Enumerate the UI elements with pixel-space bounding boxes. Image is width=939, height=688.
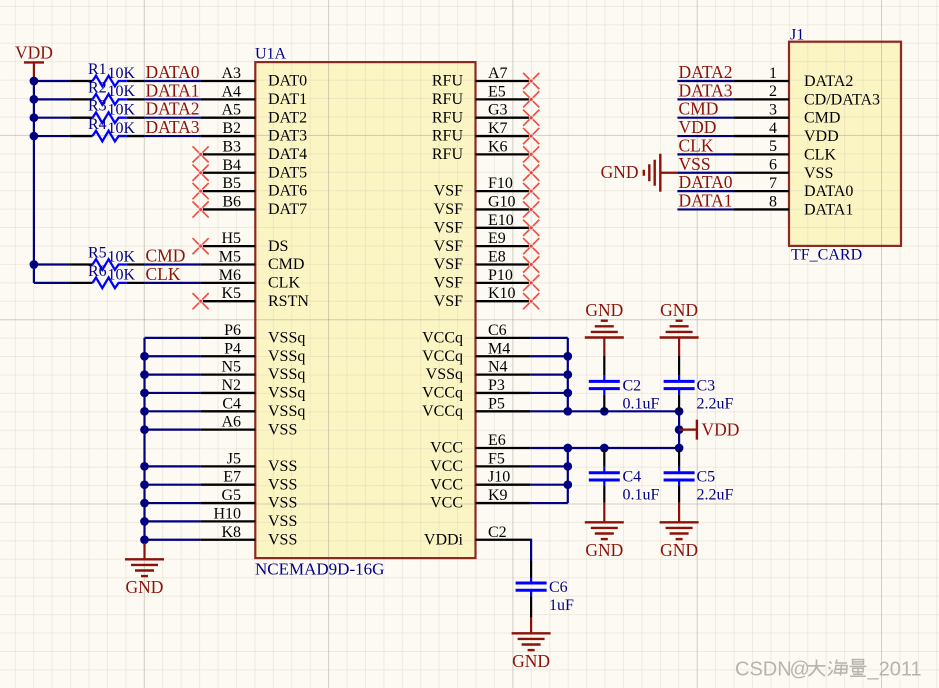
capacitor C5 2.2uF	[664, 449, 734, 504]
svg-text:A5: A5	[221, 102, 241, 119]
net label VSS J1	[679, 154, 711, 174]
svg-text:VDD: VDD	[702, 420, 740, 440]
svg-text:GND: GND	[660, 540, 698, 560]
svg-text:R3: R3	[88, 98, 107, 115]
resistor R2 10K	[70, 79, 144, 104]
svg-text:C5: C5	[697, 469, 716, 486]
svg-text:DAT5: DAT5	[268, 164, 307, 181]
svg-text:K5: K5	[221, 285, 241, 302]
svg-text:DATA3: DATA3	[679, 80, 733, 100]
svg-text:VSF: VSF	[434, 238, 463, 255]
svg-text:C2: C2	[488, 524, 507, 541]
svg-text:DATA3: DATA3	[146, 117, 200, 137]
svg-text:4: 4	[769, 120, 777, 137]
svg-text:E10: E10	[488, 212, 514, 229]
svg-text:3: 3	[769, 102, 777, 119]
ground GND left	[125, 543, 164, 597]
net label CMD J1	[679, 99, 719, 119]
svg-text:VSF: VSF	[434, 219, 463, 236]
pin F10 (VSF) U1A right	[434, 175, 531, 200]
svg-text:DATA2: DATA2	[146, 99, 200, 119]
pin E8 (VSF) U1A right	[434, 249, 531, 274]
capacitor C6 1uF	[516, 561, 574, 618]
svg-text:E8: E8	[488, 249, 506, 266]
svg-text:VDD: VDD	[15, 42, 53, 62]
wire VCC bus right lower	[567, 448, 569, 503]
wire VDDi to C6	[529, 540, 532, 561]
wire C3 to C5 column	[678, 411, 680, 448]
wire net DATA2 J1	[677, 80, 734, 82]
pin 4 J1	[734, 120, 839, 145]
pin H5 (DS) U1A left	[201, 230, 289, 255]
net label CLK	[146, 264, 181, 284]
pin E7 (VSS) U1A left	[201, 469, 298, 494]
svg-text:VCC: VCC	[430, 458, 463, 475]
junction VDD bus	[30, 77, 39, 269]
pin J5 (VSS) U1A left	[201, 450, 298, 475]
pin 5 J1	[734, 138, 836, 163]
pin C2 (VDDi) U1A right	[424, 524, 531, 549]
net label DATA2	[146, 99, 200, 119]
svg-text:CMD: CMD	[804, 110, 840, 127]
svg-text:VSS: VSS	[268, 421, 297, 438]
svg-text:DATA0: DATA0	[804, 183, 853, 200]
svg-text:E6: E6	[488, 432, 506, 449]
op-amp U1A outline	[255, 46, 476, 579]
pin F5 (VCC) U1A right	[430, 450, 530, 475]
svg-text:CMD: CMD	[146, 246, 186, 266]
wire net VDD J1	[677, 135, 734, 137]
wire GND bus to pin row 22	[145, 484, 201, 486]
wire pin row 17 to bus	[530, 392, 567, 394]
power port VDD top-left	[15, 42, 53, 79]
svg-text:VSF: VSF	[434, 256, 463, 273]
svg-text:VSF: VSF	[434, 201, 463, 218]
pin B4 (DAT5) U1A left	[201, 157, 308, 182]
svg-text:C4: C4	[222, 395, 241, 412]
svg-text:C6: C6	[549, 579, 568, 596]
pin A4 (DAT1) U1A left	[201, 83, 308, 108]
svg-text:CD/DATA3: CD/DATA3	[804, 91, 880, 108]
net label DATA0 J1	[679, 172, 733, 192]
svg-text:CLK: CLK	[679, 135, 714, 155]
pin 8 J1	[734, 193, 853, 218]
svg-text:DAT3: DAT3	[268, 128, 307, 145]
svg-text:DATA1: DATA1	[146, 80, 200, 100]
svg-text:GND: GND	[585, 540, 623, 560]
svg-text:DAT4: DAT4	[268, 146, 307, 163]
ground GND below C6	[512, 618, 551, 671]
svg-text:DATA2: DATA2	[804, 73, 853, 90]
ground GND below C4	[585, 503, 624, 560]
svg-text:R5: R5	[88, 245, 107, 262]
svg-text:VSSq: VSSq	[268, 348, 305, 365]
pin 3 J1	[734, 102, 840, 127]
svg-text:J10: J10	[488, 469, 510, 486]
pin K10 (VSF) U1A right	[434, 285, 531, 310]
svg-text:VCC: VCC	[430, 476, 463, 493]
svg-text:DATA1: DATA1	[679, 190, 733, 210]
wire VDD bus to R3	[34, 117, 70, 119]
svg-text:H10: H10	[213, 505, 241, 522]
svg-text:GND: GND	[512, 651, 550, 671]
svg-text:F5: F5	[488, 450, 505, 467]
svg-text:K6: K6	[488, 138, 508, 155]
ground GND below C5	[660, 503, 699, 560]
resistor R5 10K	[70, 245, 144, 270]
svg-text:F10: F10	[488, 175, 513, 192]
svg-text:VCCq: VCCq	[422, 348, 463, 365]
pin N2 (VSSq) U1A left	[201, 377, 306, 402]
wire GND bus to pin row 17	[145, 392, 201, 394]
svg-text:VSF: VSF	[434, 274, 463, 291]
wire GND bus to pin row 19	[145, 429, 201, 431]
svg-text:2.2uF: 2.2uF	[697, 487, 734, 504]
junction upper bus	[563, 352, 683, 416]
svg-text:0.1uF: 0.1uF	[623, 395, 660, 412]
svg-text:RFU: RFU	[432, 91, 464, 108]
wire net DATA2	[144, 117, 200, 119]
svg-text:RFU: RFU	[432, 109, 464, 126]
net label DATA3	[146, 117, 200, 137]
svg-text:P3: P3	[488, 377, 505, 394]
pin H10 (VSS) U1A left	[201, 505, 298, 530]
svg-text:A3: A3	[221, 65, 241, 82]
wire net DATA3	[144, 135, 200, 137]
svg-text:N4: N4	[488, 359, 508, 376]
pin G10 (VSF) U1A right	[434, 193, 531, 218]
pin 6 J1	[734, 157, 833, 182]
net label DATA1 J1	[679, 190, 733, 210]
pin N4 (VSSq) U1A right	[426, 359, 531, 384]
svg-text:GND: GND	[601, 162, 639, 182]
wire pin row 15 to bus	[530, 355, 567, 357]
svg-text:G10: G10	[488, 193, 516, 210]
svg-text:VSS: VSS	[268, 458, 297, 475]
wire GND bus to pin row 23	[145, 502, 201, 504]
wire GND bus to pin row 18	[145, 410, 201, 412]
svg-text:VSSq: VSSq	[268, 403, 305, 420]
svg-text:VSS: VSS	[268, 495, 297, 512]
svg-text:C2: C2	[623, 377, 642, 394]
svg-text:K10: K10	[488, 285, 516, 302]
pin M6 (CLK) U1A left	[201, 267, 301, 292]
resistor R3 10K	[70, 98, 144, 123]
svg-text:A7: A7	[488, 65, 508, 82]
svg-text:10K: 10K	[108, 248, 136, 265]
svg-text:B6: B6	[222, 193, 241, 210]
svg-text:R4: R4	[88, 116, 107, 133]
svg-text:DATA1: DATA1	[804, 201, 853, 218]
capacitor C2 0.1uF	[589, 356, 660, 412]
svg-text:10K: 10K	[108, 83, 136, 100]
svg-text:@: @	[790, 659, 810, 681]
svg-text:M5: M5	[219, 249, 241, 266]
svg-text:B3: B3	[222, 138, 241, 155]
svg-text:VSF: VSF	[434, 183, 463, 200]
svg-text:N2: N2	[221, 377, 241, 394]
svg-text:VCC: VCC	[430, 495, 463, 512]
svg-text:DAT1: DAT1	[268, 91, 307, 108]
svg-text:10K: 10K	[108, 65, 136, 82]
svg-text:C4: C4	[623, 469, 642, 486]
wire VDD bus to R1	[34, 80, 70, 82]
svg-text:GND: GND	[660, 300, 698, 320]
svg-text:DAT7: DAT7	[268, 201, 307, 218]
junction GND bus left	[140, 352, 149, 544]
svg-text:B4: B4	[222, 157, 241, 174]
pin G5 (VSS) U1A left	[201, 487, 298, 512]
IC body U1A	[255, 62, 475, 558]
svg-text:P10: P10	[488, 267, 513, 284]
svg-text:P5: P5	[488, 395, 505, 412]
no-ERC marks U1A left pins	[193, 146, 209, 309]
pin P5 (VCCq) U1A right	[422, 395, 530, 420]
wire VDD bus to R6	[34, 282, 70, 284]
no-ERC marks U1A right pins	[523, 73, 539, 309]
resistor R1 10K	[70, 61, 144, 86]
pin K7 (RFU) U1A right	[432, 120, 531, 145]
svg-text:GND: GND	[126, 577, 164, 597]
svg-text:K9: K9	[488, 487, 508, 504]
svg-text:C6: C6	[488, 322, 507, 339]
pin M4 (VCCq) U1A right	[422, 340, 530, 365]
pin C6 (VCCq) U1A right	[422, 322, 530, 347]
svg-text:DATA0: DATA0	[679, 172, 733, 192]
svg-text:DS: DS	[268, 238, 288, 255]
connector body J1	[789, 42, 901, 246]
svg-text:CLK: CLK	[268, 274, 300, 291]
svg-text:VSF: VSF	[434, 293, 463, 310]
svg-text:VDDi: VDDi	[424, 531, 464, 548]
wire GND bus to pin row 21	[145, 465, 201, 467]
svg-text:R2: R2	[88, 79, 107, 96]
svg-text:P6: P6	[224, 322, 241, 339]
svg-text:0.1uF: 0.1uF	[623, 487, 660, 504]
wire VDD bus to R2	[34, 98, 70, 100]
pin P10 (VSF) U1A right	[434, 267, 531, 292]
svg-text:VCCq: VCCq	[422, 385, 463, 402]
wire net DATA1 J1	[677, 208, 734, 210]
svg-text:GND: GND	[585, 300, 623, 320]
pin B6 (DAT7) U1A left	[201, 193, 308, 218]
pin A3 (DAT0) U1A left	[201, 65, 308, 90]
svg-text:RSTN: RSTN	[268, 293, 309, 310]
wire GND bus to pin row 15	[145, 355, 201, 357]
wire VDD bus right upper	[567, 338, 569, 411]
svg-text:VSS: VSS	[268, 476, 297, 493]
net label DATA0	[146, 62, 200, 82]
svg-text:E9: E9	[488, 230, 506, 247]
watermark	[735, 659, 922, 681]
pin K8 (VSS) U1A left	[201, 524, 298, 549]
pin K6 (RFU) U1A right	[432, 138, 531, 163]
pin J10 (VCC) U1A right	[430, 469, 530, 494]
svg-text:CMD: CMD	[679, 99, 719, 119]
pin C4 (VSSq) U1A left	[201, 395, 306, 420]
svg-text:VSSq: VSSq	[426, 366, 463, 383]
ground GND at J1 VSS	[601, 154, 678, 192]
svg-text:H5: H5	[221, 230, 241, 247]
pin E5 (RFU) U1A right	[432, 83, 531, 108]
wire GND bus to pin row 24	[145, 520, 201, 522]
wire net DATA3 J1	[677, 98, 734, 100]
svg-text:DATA0: DATA0	[146, 62, 200, 82]
svg-text:TF_CARD: TF_CARD	[791, 247, 862, 264]
wire net CMD	[144, 263, 200, 265]
svg-text:2: 2	[769, 83, 777, 100]
svg-text:10K: 10K	[108, 102, 136, 119]
svg-text:U1A: U1A	[255, 46, 287, 63]
capacitor C4 0.1uF	[589, 449, 660, 504]
svg-text:CMD: CMD	[268, 256, 304, 273]
pin P6 (VSSq) U1A left	[201, 322, 306, 347]
svg-text:10K: 10K	[108, 267, 136, 284]
pin P4 (VSSq) U1A left	[201, 340, 306, 365]
wire bus to C5	[568, 447, 679, 449]
junction lower bus	[563, 425, 683, 489]
svg-text:DAT2: DAT2	[268, 109, 307, 126]
svg-text:A4: A4	[221, 83, 241, 100]
wire VDD bus to R5	[34, 263, 70, 265]
svg-text:VSS: VSS	[268, 531, 297, 548]
wire GND bus to pin row 16	[145, 374, 201, 376]
svg-text:R6: R6	[88, 263, 107, 280]
wire bus to C3	[568, 410, 679, 412]
pin E6 (VCC) U1A right	[430, 432, 530, 457]
svg-text:RFU: RFU	[432, 146, 464, 163]
wire net DATA0	[144, 80, 200, 82]
svg-text:CLK: CLK	[146, 264, 181, 284]
svg-text:P4: P4	[224, 340, 241, 357]
svg-text:_2011: _2011	[867, 659, 922, 681]
svg-text:E7: E7	[223, 469, 241, 486]
wire net DATA1	[144, 98, 200, 100]
svg-text:VDD: VDD	[804, 128, 839, 145]
svg-text:VCCq: VCCq	[422, 330, 463, 347]
pin A6 (VSS) U1A left	[201, 414, 298, 439]
svg-text:VSSq: VSSq	[268, 366, 305, 383]
resistor R6 10K	[70, 263, 144, 288]
svg-text:G5: G5	[221, 487, 241, 504]
svg-text:10K: 10K	[108, 120, 136, 137]
net label CMD	[146, 246, 186, 266]
resistor R4 10K	[70, 116, 144, 141]
wire pin row 16 to bus	[530, 374, 567, 376]
svg-text:1uF: 1uF	[549, 597, 574, 614]
pin G3 (RFU) U1A right	[432, 102, 531, 127]
pin B5 (DAT6) U1A left	[201, 175, 308, 200]
wire pin row 22 to bus	[530, 484, 567, 486]
pin 7 J1	[734, 175, 853, 200]
svg-text:K8: K8	[221, 524, 241, 541]
svg-text:8: 8	[769, 193, 777, 210]
svg-text:VSSq: VSSq	[268, 385, 305, 402]
pin 2 J1	[734, 83, 880, 108]
wire net CLK	[144, 282, 200, 284]
svg-text:B2: B2	[222, 120, 241, 137]
wire pin row 21 to bus	[530, 465, 567, 467]
net label CLK J1	[679, 135, 714, 155]
capacitor C3 2.2uF	[664, 356, 734, 412]
pin A7 (RFU) U1A right	[432, 65, 531, 90]
svg-text:VSS: VSS	[804, 165, 833, 182]
svg-text:J1: J1	[790, 27, 804, 44]
svg-text:1: 1	[769, 65, 777, 82]
wire pin row 14 to bus	[530, 337, 567, 339]
pin N5 (VSSq) U1A left	[201, 359, 306, 384]
wire net CLK J1	[677, 153, 734, 155]
svg-text:RFU: RFU	[432, 128, 464, 145]
connector J1 outline	[789, 27, 901, 264]
wire GND bus left	[143, 338, 145, 545]
wire net CMD J1	[677, 117, 734, 119]
svg-text:C3: C3	[697, 377, 716, 394]
wire VDD vertical bus	[33, 79, 35, 283]
pin B3 (DAT4) U1A left	[201, 138, 308, 163]
wire GND bus to pin row 25	[145, 539, 201, 541]
wire pin row 18 to bus	[530, 410, 567, 412]
pin M5 (CMD) U1A left	[201, 249, 305, 274]
svg-text:J5: J5	[227, 450, 241, 467]
ground GND above C3	[660, 300, 699, 356]
net label DATA1	[146, 80, 200, 100]
svg-text:VCC: VCC	[430, 440, 463, 457]
pin A5 (DAT2) U1A left	[201, 102, 308, 127]
wire GND bus to pin row 14	[145, 337, 201, 339]
svg-text:M6: M6	[219, 267, 241, 284]
svg-text:N5: N5	[221, 359, 241, 376]
svg-text:VDD: VDD	[679, 117, 717, 137]
pin E10 (VSF) U1A right	[434, 212, 531, 237]
svg-text:VSS: VSS	[268, 513, 297, 530]
svg-text:G3: G3	[488, 102, 508, 119]
svg-text:NCEMAD9D-16G: NCEMAD9D-16G	[255, 560, 384, 579]
pin E9 (VSF) U1A right	[434, 230, 531, 255]
pin B2 (DAT3) U1A left	[201, 120, 308, 145]
svg-text:R1: R1	[88, 61, 107, 78]
wire net VSS J1	[677, 172, 734, 174]
svg-text:M4: M4	[488, 340, 510, 357]
svg-text:7: 7	[769, 175, 777, 192]
pin 1 J1	[734, 65, 853, 90]
svg-text:B5: B5	[222, 175, 241, 192]
ground GND above C2	[585, 300, 624, 356]
pin K9 (VCC) U1A right	[430, 487, 530, 512]
svg-text:CSDN: CSDN	[735, 659, 792, 681]
svg-text:DAT0: DAT0	[268, 73, 307, 90]
svg-text:RFU: RFU	[432, 73, 464, 90]
power port VDD right	[679, 420, 739, 440]
net label VDD J1	[679, 117, 717, 137]
svg-text:DAT6: DAT6	[268, 183, 307, 200]
svg-text:K7: K7	[488, 120, 508, 137]
svg-text:6: 6	[769, 157, 777, 174]
pin P3 (VCCq) U1A right	[422, 377, 530, 402]
svg-text:2.2uF: 2.2uF	[697, 395, 734, 412]
net label DATA3 J1	[679, 80, 733, 100]
net label DATA2 J1	[679, 62, 733, 82]
svg-text:CLK: CLK	[804, 146, 836, 163]
svg-text:A6: A6	[221, 414, 241, 431]
wire VDD bus to R4	[34, 135, 70, 137]
svg-text:VCCq: VCCq	[422, 403, 463, 420]
pin K5 (RSTN) U1A left	[201, 285, 310, 310]
svg-text:E5: E5	[488, 83, 506, 100]
wire net DATA0 J1	[677, 190, 734, 192]
wire pin row 20 to bus	[530, 447, 567, 449]
svg-text:DATA2: DATA2	[679, 62, 733, 82]
